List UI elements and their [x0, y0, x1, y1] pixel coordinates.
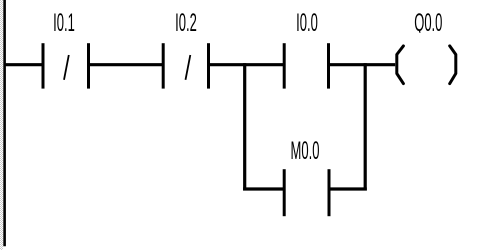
svg-text:I0.1: I0.1 — [53, 10, 75, 38]
contact I0.1 (normally closed) — [43, 43, 89, 88]
svg-text:I0.2: I0.2 — [175, 10, 197, 38]
left power rail — [3, 0, 6, 246]
svg-text:I0.0: I0.0 — [296, 10, 318, 38]
contact M0.0 (normally open) — [284, 169, 329, 216]
coil Q0.0 — [397, 46, 456, 84]
wire: I0.2 to I0.0 — [207, 63, 286, 66]
branch wire: right vertical riser — [364, 63, 367, 190]
svg-text:M0.0: M0.0 — [291, 138, 320, 166]
label Q0.0 — [414, 10, 442, 38]
contact I0.0 (normally open) — [284, 43, 328, 88]
branch wire: M0.0 to riser — [328, 187, 367, 190]
contact I0.2 (normally closed) — [163, 43, 208, 88]
wire: I0.0 to coil Q0.0 — [327, 63, 395, 66]
wire: rail to contact I0.1 — [4, 63, 45, 66]
branch wire: left vertical drop — [243, 63, 246, 190]
wire: I0.1 to I0.2 — [87, 63, 165, 66]
branch wire: to contact M0.0 — [243, 187, 285, 190]
